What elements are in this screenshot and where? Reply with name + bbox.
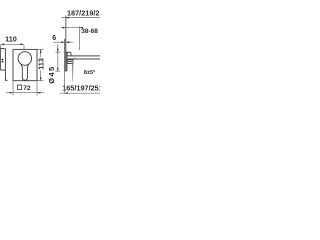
- svg-text:165/197/251: 165/197/251: [62, 84, 100, 93]
- svg-text:Ø45: Ø45: [47, 65, 56, 83]
- svg-text:38-68: 38-68: [81, 28, 98, 35]
- svg-text:187/219/251: 187/219/251: [67, 8, 100, 17]
- svg-text:110: 110: [5, 34, 17, 43]
- svg-text:8±5°: 8±5°: [84, 70, 95, 76]
- svg-text:72: 72: [23, 85, 31, 92]
- svg-text:113: 113: [36, 58, 45, 70]
- svg-text:6: 6: [52, 35, 56, 42]
